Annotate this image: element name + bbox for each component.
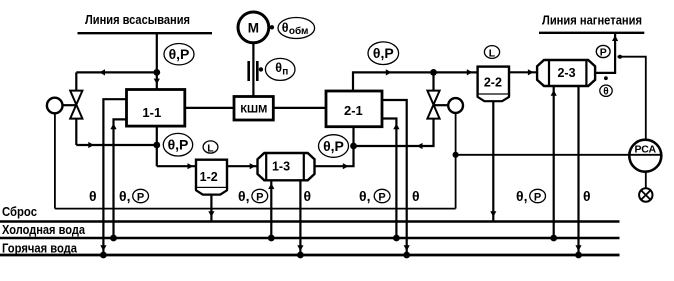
wire: impulse line into PCA from B2 junction	[456, 154, 662, 156]
svg-text:θ: θ	[282, 21, 289, 35]
wire: 2-3 cold water feed	[553, 86, 555, 238]
node: motor winding temperature tap	[270, 25, 274, 29]
svg-text:обм: обм	[289, 25, 309, 37]
svg-text:P: P	[534, 191, 541, 203]
svg-text:Линия всасывания: Линия всасывания	[85, 12, 190, 27]
svg-text:θ: θ	[304, 188, 312, 204]
node: discharge bypass junction	[430, 69, 437, 76]
arrow: flow right toward 2-1 riser	[343, 163, 349, 169]
wire: suction header	[78, 32, 213, 34]
coupling bars	[249, 61, 258, 81]
label: theta,P at 1-3 cold water line	[238, 188, 268, 204]
wire: 1-3 hot water return	[299, 180, 301, 255]
svg-text:P: P	[256, 191, 263, 203]
node: temperature tap dot at discharge	[604, 76, 608, 80]
arrow: hot water down to header from 1-3	[297, 245, 303, 251]
arrow: flow left toward 2-1 suction junction	[417, 143, 423, 149]
node: cold water junction 1-3	[268, 235, 275, 242]
svg-text:θ,: θ,	[516, 188, 527, 204]
valve VE1	[70, 91, 82, 119]
arrow: cold water up into 2-3	[551, 90, 557, 96]
wire: impulse line bottom run B1 to B2	[55, 208, 456, 210]
wire: 2-1 cold water stub lower	[382, 119, 396, 239]
wire: 2-1 hot water stub upper	[382, 100, 407, 255]
instrument label ellipse theta,P at 2-1 suction	[319, 135, 349, 158]
instrument label ellipse L at 2-2	[484, 46, 499, 60]
node: hot water junction 1-3	[297, 252, 304, 259]
arrow: cold water up into 1-3	[268, 183, 274, 189]
wire: 1-3 outlet to 2-1 suction junction	[315, 127, 354, 167]
arrow: flow right toward 1-1 outlet junction	[88, 142, 94, 148]
compressor stage 2-1	[326, 91, 382, 127]
svg-text:θ,P: θ,P	[323, 138, 344, 154]
svg-text:2-3: 2-3	[557, 66, 575, 80]
svg-text:Линия нагнетания: Линия нагнетания	[542, 13, 642, 28]
svg-text:θ: θ	[412, 188, 420, 204]
wire: valve VE2 to instrument circle B2	[434, 104, 449, 106]
wire: PCA to actuator	[645, 172, 647, 189]
label: theta,P at 1-1 cold water line	[119, 188, 149, 204]
wire: suction drop pipe into 1-1	[156, 33, 158, 89]
node: impulse line junction to PCA	[453, 152, 459, 158]
wire: drive shaft 1-1 to KShM	[185, 107, 234, 109]
wire: 1-2 to intercooler 1-3	[227, 165, 258, 167]
node: 2-1 suction junction	[350, 143, 357, 150]
svg-text:θ: θ	[603, 87, 608, 98]
wire: valve VE2 upper stem	[432, 72, 434, 91]
node: hot water junction 1-1	[100, 252, 107, 259]
svg-text:θ: θ	[275, 61, 282, 75]
label: theta,P at 2-1 cold water line	[359, 188, 390, 204]
wire: 1-1 hot water stub upper	[103, 99, 126, 255]
svg-text:1-2: 1-2	[200, 170, 218, 184]
wire: drive shaft KShM to 2-1	[273, 107, 326, 109]
instrument label ellipse theta,P at suction	[164, 44, 194, 65]
svg-text:Горячая вода: Горячая вода	[2, 241, 78, 255]
arrow: cold water up into 2-1	[393, 124, 399, 130]
valve VE2	[427, 91, 439, 119]
svg-text:θ,P: θ,P	[168, 137, 189, 153]
svg-text:п: п	[282, 67, 288, 78]
wire: discharge header	[539, 32, 644, 34]
node: cold water junction 2-3	[550, 235, 557, 242]
wire: 1-1 outlet down	[156, 126, 158, 166]
compressor stage 1-1	[127, 90, 185, 127]
wire: hot water header	[0, 254, 620, 257]
instrument circle B2 (pressure tap right)	[448, 98, 463, 113]
svg-text:P: P	[137, 191, 144, 203]
svg-text:P: P	[600, 46, 607, 58]
svg-text:θ,: θ,	[238, 188, 249, 204]
wire: B1 to valve VE1	[63, 104, 77, 106]
arrow: cold water up into 1-1	[110, 124, 116, 130]
node: suction bypass junction	[153, 69, 160, 76]
wire: 1-1 cold water stub lower	[114, 119, 127, 238]
svg-text:Холодная вода: Холодная вода	[2, 223, 86, 237]
arrow: flow into 2-3	[528, 69, 534, 75]
wire: 2-2 to aftercooler 2-3	[509, 71, 537, 73]
wire: impulse line from B2 down	[455, 113, 457, 209]
wire: 1-1 outlet to separator 1-2	[157, 165, 196, 167]
svg-text:М: М	[248, 20, 259, 35]
instrument label ellipse L at 1-2	[203, 141, 218, 154]
wire: 2-3 outlet to discharge riser	[595, 33, 615, 73]
node: coupling temperature tap	[259, 67, 263, 71]
wire: bypass valve VE2 line to 2-1 suction junction	[354, 119, 434, 146]
arrow: flow into 1-3	[250, 163, 256, 169]
wire: blowdown header Sbros	[0, 220, 620, 223]
arrow: flow down into 1-1	[154, 79, 160, 85]
svg-text:РСА: РСА	[634, 143, 656, 155]
svg-text:θ,: θ,	[359, 188, 370, 204]
node: 1-1 outlet junction	[153, 142, 160, 149]
svg-text:θ,P: θ,P	[169, 46, 190, 62]
separator vessel 2-2	[478, 67, 509, 102]
arrow: hot water down to header	[100, 245, 106, 251]
node: cold water junction 1-1	[110, 235, 117, 242]
arrow: drain down to blowdown header from 2-2	[490, 211, 496, 217]
instrument label ellipse theta at discharge	[600, 85, 612, 98]
arrow: flow up into discharge header	[612, 35, 618, 41]
instrument circle B1 (pressure tap left)	[47, 98, 63, 114]
wire: bypass to 1-1 outlet junction	[76, 144, 157, 146]
instrument label ellipse P at discharge	[596, 45, 610, 58]
wire: bypass from suction junction to valve VE1	[76, 71, 157, 73]
svg-text:КШМ: КШМ	[240, 103, 267, 115]
arrow: flow into 1-2	[188, 163, 194, 169]
wire: 2-1 discharge riser and line to 2-2	[353, 72, 478, 91]
instrument label ellipse theta p (bearing)	[265, 58, 295, 80]
node: cold water junction 2-1	[393, 235, 400, 242]
arrow: flow into 2-2	[467, 69, 473, 75]
intercooler drum 1-3	[258, 153, 315, 180]
svg-text:P: P	[378, 191, 385, 203]
node: hot water junction 2-1	[403, 252, 410, 259]
aftercooler drum 2-3	[537, 60, 595, 86]
node: pressure tap dot	[618, 55, 622, 59]
arrow: flow toward valve VE1	[99, 69, 105, 75]
wire: 1-3 cold water feed	[270, 180, 272, 238]
wire: 2-3 hot water return	[577, 86, 579, 255]
controller PCA	[629, 140, 661, 172]
svg-text:θ: θ	[583, 188, 591, 204]
wire: 1-2 drain to blowdown	[210, 195, 212, 222]
svg-text:L: L	[207, 142, 214, 154]
arrow: flow right from 2-1 discharge	[386, 69, 392, 75]
motor M	[238, 12, 269, 43]
instrument label ellipse theta obm	[278, 18, 315, 39]
wire: valve VE1 lower stem	[75, 119, 77, 145]
node: hot water junction 2-3	[575, 252, 582, 259]
separator vessel 1-2	[196, 160, 227, 195]
arrow: hot water down to header from 2-1	[404, 245, 410, 251]
svg-text:θ,: θ,	[119, 188, 130, 204]
label: theta,P at 2-3 cold water line	[516, 188, 545, 204]
instrument label ellipse theta,P at 2-1 discharge	[368, 42, 399, 65]
wire: valve VE1 upper stem	[75, 72, 77, 91]
svg-text:L: L	[489, 47, 496, 59]
arrow: hot water down to header from 2-3	[575, 245, 581, 251]
instrument label ellipse theta,P at 1-1 outlet	[163, 133, 192, 156]
wire: impulse line from B1 down	[54, 113, 56, 208]
actuator symbol (circle with cross)	[639, 188, 652, 201]
svg-text:θ,P: θ,P	[373, 45, 394, 61]
svg-text:θ: θ	[89, 188, 97, 204]
svg-text:1-1: 1-1	[142, 105, 161, 120]
crank mechanism block KShM	[234, 97, 273, 121]
wire: pressure impulse line to PCA	[618, 57, 646, 140]
wire: 2-2 drain to blowdown	[492, 101, 494, 221]
svg-text:1-3: 1-3	[272, 159, 290, 173]
svg-text:2-1: 2-1	[344, 103, 363, 118]
svg-text:Сброс: Сброс	[2, 205, 37, 219]
arrow: drain down to blowdown header	[208, 211, 214, 217]
wire: motor shaft	[252, 43, 254, 97]
wire: cold water header	[0, 237, 620, 240]
svg-text:2-2: 2-2	[484, 75, 502, 89]
